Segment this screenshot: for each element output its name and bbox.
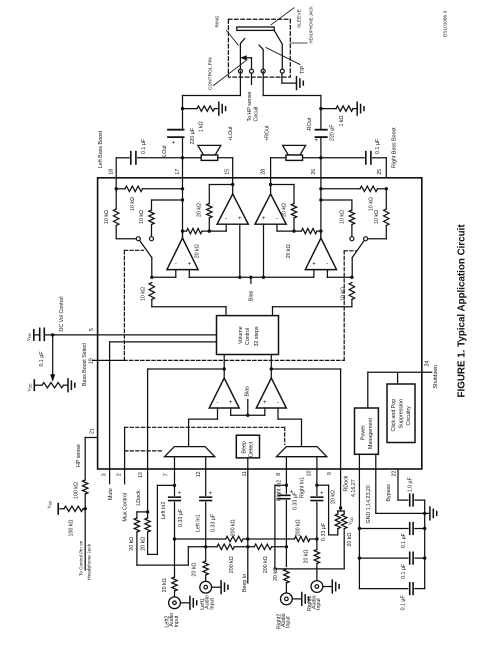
svg-text:Mux Control: Mux Control: [122, 493, 128, 522]
svg-text:20 kΩ: 20 kΩ: [347, 533, 353, 547]
svg-text:20 kΩ: 20 kΩ: [331, 490, 337, 504]
svg-text:19: 19: [89, 358, 95, 364]
capacitor 220 uF right: [314, 130, 326, 144]
capacitor 0.1 uF decoupling 3: [359, 583, 424, 595]
op-amp A4 -ROut driver: [305, 231, 336, 277]
svg-text:Right Bass Boost: Right Bass Boost: [392, 127, 398, 168]
label Left Bass Boost: [98, 130, 104, 168]
label HP sense: [76, 444, 82, 467]
label RDock: [344, 475, 350, 491]
svg-text:Control: Control: [245, 328, 251, 345]
svg-text:10 kΩ: 10 kΩ: [374, 210, 380, 224]
resistor 20 kOhm RDock B: [275, 485, 347, 569]
label +ROut: [265, 125, 271, 141]
wire pin 18 line: [115, 158, 117, 189]
svg-text:Bass Boost Select: Bass Boost Select: [82, 342, 88, 386]
node pin17 10k tap: [181, 198, 184, 201]
svg-text:10 kΩ: 10 kΩ: [130, 197, 136, 211]
svg-text:CONTROL PIN: CONTROL PIN: [208, 57, 214, 90]
capacitor 0.1 uF decoupling 1: [359, 523, 424, 535]
svg-text:LDock: LDock: [136, 490, 142, 505]
ground symbol main: [430, 507, 437, 520]
resistor 10 kOhm bass boost left horizontal: [116, 186, 182, 191]
label HEADPHONE JACK with leader: [291, 6, 313, 44]
jack tip contact: [259, 45, 265, 73]
svg-text:+: +: [314, 138, 318, 144]
wire bias rail lower: [231, 400, 265, 417]
svg-text:RING: RING: [215, 15, 221, 27]
node pin18 feedback row: [115, 187, 185, 190]
label Right In2: [276, 480, 282, 501]
label 10 kOhm left B: [139, 210, 145, 224]
pin 19 label: [89, 358, 95, 364]
svg-text:0.33 µF: 0.33 µF: [210, 513, 216, 532]
dashed mux control line left: [125, 450, 162, 452]
wire GND pins line: [376, 454, 425, 513]
speaker right: [283, 145, 306, 160]
svg-text:1.0 µF: 1.0 µF: [408, 476, 414, 492]
pin 21 label: [89, 428, 95, 434]
node Bias tap upper: [249, 276, 252, 284]
wire VDD rail pins 4 16 27: [358, 454, 361, 588]
svg-text:To HP sense: To HP sense: [247, 92, 253, 122]
resistor 10 kOhm left volume: [149, 283, 226, 316]
label RING with leader: [215, 15, 239, 45]
wire tip to -ROut: [263, 71, 321, 95]
label 20 kOhm LDock B: [140, 537, 146, 551]
resistor 20 kOhm Right In2: [284, 569, 289, 593]
svg-text:Bypass: Bypass: [386, 484, 392, 502]
svg-text:0.33 µF: 0.33 µF: [178, 508, 184, 527]
resistor 200 kOhm beep left A: [226, 536, 243, 541]
svg-text:+: +: [320, 491, 324, 497]
pin 7 label: [164, 473, 170, 476]
label Bass Boost Select: [82, 342, 88, 386]
wire Mux Control pin 2 riser: [124, 427, 126, 484]
wire row A beep to inputs 1: [173, 537, 319, 540]
svg-text:Detect: Detect: [249, 441, 255, 457]
label 0.33 uF Left In2: [178, 508, 184, 527]
wire A3 + input to bias rail: [263, 224, 265, 277]
jack Right1 audio input: [311, 581, 331, 593]
svg-text:Shutdown: Shutdown: [433, 365, 439, 389]
pin 9 label: [327, 472, 333, 475]
svg-text:Management: Management: [368, 418, 374, 449]
label 10 kOhm left A: [104, 210, 110, 224]
label Shutdown: [433, 365, 439, 389]
label 20 kOhm RDock A: [331, 490, 337, 504]
wire ring to -LOut: [183, 71, 241, 95]
capacitor 0.33 uF Right In1: [311, 491, 324, 501]
label 20 kOhm Right In1: [304, 549, 310, 563]
svg-text:Circuit: Circuit: [253, 106, 259, 122]
wire pin 8 Right In2 line: [285, 469, 288, 567]
label Right In1: [300, 477, 306, 498]
op-amp A2 +LOut driver: [217, 178, 248, 224]
label 0.33 uF Right In1: [321, 522, 327, 541]
svg-text:11: 11: [242, 471, 248, 476]
svg-text:+: +: [238, 215, 242, 222]
capacitor 0.33 uF Right In2: [278, 489, 293, 498]
svg-text:Input: Input: [174, 615, 180, 627]
power management block: [355, 408, 379, 454]
pin 11 label: [242, 471, 248, 476]
op-amp A6 right gain stage: [256, 378, 286, 408]
svg-text:VDD: VDD: [348, 516, 354, 525]
label -LOut: [162, 145, 168, 159]
potentiometer DC volume: [34, 383, 67, 388]
svg-text:+: +: [172, 140, 176, 146]
wire pin 10 Right In1 line: [315, 469, 318, 550]
label pins 4 16 27: [351, 479, 357, 497]
svg-text:Power: Power: [360, 425, 366, 440]
wire RDock bus: [270, 367, 341, 508]
capacitor 0.1 uF DC vol: [34, 328, 45, 340]
label 1.0 uF bypass: [408, 476, 414, 492]
label 0.33 uF Left In1: [210, 513, 216, 532]
svg-text:Right In1: Right In1: [300, 477, 306, 498]
wire volume to bus left: [223, 355, 225, 379]
svg-text:-: -: [326, 261, 328, 268]
node +ROut feedback: [269, 183, 272, 186]
supply VDD for DC vol cap: [33, 330, 35, 340]
svg-text:-: -: [277, 399, 279, 406]
wire beep detect to pin 11: [247, 458, 249, 469]
label 220 uF left: [190, 127, 196, 144]
svg-text:20 kΩ: 20 kΩ: [281, 203, 287, 217]
resistor 20 kOhm right feedback vertical: [271, 185, 297, 232]
pin 17 label: [175, 169, 181, 175]
wire A5 minus to left mux: [189, 408, 218, 447]
resistor 100 kOhm HP sense pullup: [60, 506, 85, 511]
speaker left: [198, 145, 221, 160]
resistor 200 kOhm beep left B: [217, 544, 234, 549]
volume control block: [217, 316, 279, 355]
potentiometer wiper arrow: [51, 335, 55, 381]
svg-text:12: 12: [196, 471, 202, 477]
wire volume to bus right: [270, 355, 272, 379]
label 1 kOhm right: [339, 115, 345, 126]
label 0.1 uF left: [141, 138, 147, 154]
wire -ROut line pin 26: [320, 96, 322, 239]
svg-text:-ROut: -ROut: [307, 117, 313, 132]
svg-text:DS101086-3: DS101086-3: [442, 10, 447, 37]
svg-text:Volume: Volume: [238, 326, 244, 344]
svg-text:9: 9: [327, 472, 333, 475]
resistor 10 kOhm left B (direct leg): [149, 200, 183, 237]
svg-text:10: 10: [307, 470, 313, 476]
label TIP with leader: [266, 48, 306, 75]
svg-text:20 kΩ: 20 kΩ: [286, 244, 292, 258]
label 10 kOhm right horizontal: [368, 197, 374, 211]
svg-text:0.1 µF: 0.1 µF: [375, 138, 381, 154]
svg-text:+LOut: +LOut: [228, 126, 234, 141]
svg-text:To Control Pin on: To Control Pin on: [79, 540, 84, 576]
mux MUX1 left input select: [165, 447, 215, 457]
svg-text:0.1 µF: 0.1 µF: [400, 595, 406, 611]
jack ring contact: [238, 39, 244, 74]
svg-text:Right In2: Right In2: [276, 480, 282, 501]
resistor 20 kOhm Right In1: [314, 550, 319, 581]
node ground bus: [423, 512, 429, 515]
node pin26 10k tap: [319, 198, 322, 201]
svg-text:HEADPHONE JACK: HEADPHONE JACK: [308, 6, 313, 44]
resistor 10 kOhm right A (pin25 leg): [368, 189, 390, 239]
wire pin 12 Left In1 line: [205, 469, 207, 561]
label Right Bass Boost: [392, 127, 398, 168]
supply VDD for HP sense: [57, 504, 59, 514]
node HP sense divider: [84, 507, 87, 510]
capacitor 0.1 uF left bass boost: [131, 152, 136, 164]
svg-text:100 kΩ: 100 kΩ: [69, 520, 75, 537]
svg-text:0.33 µF: 0.33 µF: [321, 522, 327, 541]
label 20 kOhm right fb: [281, 203, 287, 217]
node -LOut 1k tap: [181, 107, 184, 110]
resistor 10 kOhm right volume: [273, 283, 355, 316]
label VDD 1: [26, 332, 32, 341]
pin 5 label: [89, 328, 95, 331]
jack control-pin contact with arrow: [241, 56, 253, 73]
svg-text:200 kΩ: 200 kΩ: [263, 556, 269, 573]
wire left output row: [116, 158, 233, 178]
ground at Left2 jack: [190, 596, 197, 609]
svg-text:10 kΩ: 10 kΩ: [368, 197, 374, 211]
resistor 10 kOhm right B (direct leg): [321, 200, 355, 237]
wire right output row: [271, 158, 387, 178]
svg-text:18: 18: [109, 169, 115, 175]
svg-text:+: +: [229, 399, 233, 406]
resistor 10 kOhm bass boost right horizontal: [321, 186, 386, 191]
svg-text:200 kΩ: 200 kΩ: [229, 556, 235, 573]
node right output row: [319, 156, 322, 159]
svg-text:+: +: [209, 491, 213, 497]
ground at Right1 jack: [332, 580, 339, 593]
svg-text:200 kΩ: 200 kΩ: [230, 519, 236, 536]
resistor 100 kOhm HP sense series: [83, 480, 88, 570]
dashed mux control line right: [125, 427, 285, 444]
node LDock: [137, 510, 149, 513]
jack Right2 audio input: [281, 593, 301, 605]
label 220 uF right: [329, 124, 335, 141]
beep detect block: [236, 435, 259, 458]
node RDock: [338, 506, 344, 511]
op-amp A3 +ROut driver: [255, 178, 286, 224]
label Right1 Audio Input: [307, 595, 322, 611]
switch SW2 right bass boost: [350, 237, 368, 278]
wire mux legs to pins 8 10: [286, 457, 317, 469]
label Left2 Audio Input: [164, 613, 179, 628]
resistor 20 kOhm Left In2: [172, 577, 177, 597]
label Right2 Audio Input: [276, 613, 291, 629]
label Bias lower: [245, 386, 251, 397]
label 200 kOhm A1: [230, 519, 236, 536]
svg-text:20 kΩ: 20 kΩ: [192, 562, 198, 576]
resistor 1 kOhm right: [321, 106, 356, 111]
ground at left 1k: [219, 102, 226, 115]
label SLEEVE with leader: [271, 8, 302, 28]
svg-text:20 kΩ: 20 kΩ: [304, 549, 310, 563]
resistor 20 kOhm LDock A: [134, 512, 188, 565]
ground at jack sleeve: [297, 77, 304, 90]
svg-text:Left Bass Boost: Left Bass Boost: [98, 130, 104, 168]
svg-text:SLEEVE: SLEEVE: [296, 8, 302, 28]
label Mute: [108, 488, 114, 500]
svg-text:VDD: VDD: [26, 332, 32, 341]
jack sleeve bar: [237, 27, 274, 30]
capacitor 0.1 uF right bass boost: [366, 152, 371, 164]
svg-text:10 kΩ: 10 kΩ: [139, 210, 145, 224]
svg-text:+: +: [262, 215, 266, 222]
node -ROut 1k tap: [319, 107, 322, 110]
wire pin 7 Left In2 line: [173, 469, 176, 577]
wire LDock bus: [148, 367, 226, 512]
capacitor 0.33 uF Left In1: [200, 491, 213, 501]
resistor 20 kOhm RDock A: [317, 485, 341, 535]
wire Bass Boost Select pin 19: [93, 359, 124, 361]
resistor 200 kOhm beep right B: [254, 544, 271, 549]
label 200 kOhm B2: [263, 556, 269, 573]
op-amp A5 left gain stage: [209, 378, 239, 408]
svg-text:0.1 µF: 0.1 µF: [141, 138, 147, 154]
label 0.1 uF right: [375, 138, 381, 154]
pin 12 label: [196, 471, 202, 477]
wire Mute pin 3 riser: [110, 342, 217, 484]
op-amp A1 -LOut driver: [167, 231, 198, 277]
svg-text:+: +: [178, 491, 182, 497]
svg-text:200 kΩ: 200 kΩ: [295, 519, 301, 536]
svg-text:7: 7: [164, 473, 170, 476]
label VDD rail: [348, 516, 354, 525]
pin 26 label: [311, 169, 317, 175]
wire sleeve to ground: [282, 73, 297, 83]
label Left1 Audio Input: [200, 595, 215, 610]
wire ground rail right: [423, 513, 426, 588]
label Beep In: [242, 574, 248, 592]
label 10 kOhm right A: [374, 210, 380, 224]
svg-text:1 kΩ: 1 kΩ: [198, 121, 204, 132]
IC boundary box: [98, 178, 422, 469]
wire bypass pin 22: [398, 469, 425, 513]
svg-text:10 kΩ: 10 kΩ: [340, 287, 346, 301]
pin 22 label: [392, 471, 398, 477]
svg-text:3: 3: [101, 473, 107, 476]
svg-text:28: 28: [260, 169, 266, 175]
label 20 kOhm Left In2: [162, 578, 168, 592]
wire -LOut line pin 17: [182, 96, 184, 239]
label 20 kOhm left fb: [197, 203, 203, 217]
svg-text:24: 24: [425, 361, 431, 367]
wire HP sense pin 21: [85, 438, 97, 481]
resistor 20 kOhm right input horizontal: [277, 224, 323, 234]
pin 15 label: [225, 169, 231, 175]
capacitor 1.0 uF bypass: [410, 494, 413, 506]
label 1 kOhm left: [198, 121, 204, 132]
pin 28 label: [260, 169, 266, 175]
mux MUX2 right input select: [277, 447, 327, 457]
svg-text:HP sense: HP sense: [76, 444, 82, 467]
svg-text:Mute: Mute: [108, 488, 114, 500]
label 10 kOhm right B: [340, 210, 346, 224]
svg-text:-LOut: -LOut: [162, 145, 168, 159]
ground at Right2 jack: [302, 593, 309, 606]
switch SW1 left bass boost: [136, 237, 153, 278]
wire mux legs to pins 7 12: [175, 457, 206, 469]
svg-text:21: 21: [89, 428, 95, 434]
svg-text:2: 2: [116, 473, 122, 476]
label 10 kOhm left horizontal: [130, 197, 136, 211]
svg-text:20 kΩ: 20 kΩ: [194, 244, 200, 258]
label Left In1: [195, 514, 201, 532]
svg-text:TIP: TIP: [300, 65, 306, 74]
svg-text:Beep: Beep: [242, 441, 248, 453]
label LDock: [136, 490, 142, 505]
label 0.33 uF Right In2: [292, 491, 298, 510]
svg-text:0.1 µF: 0.1 µF: [401, 563, 407, 579]
label VDD 2: [26, 383, 32, 392]
svg-text:4,16,27: 4,16,27: [351, 479, 357, 497]
svg-text:20 kΩ: 20 kΩ: [162, 578, 168, 592]
svg-text:+: +: [312, 261, 316, 268]
svg-text:+: +: [263, 399, 267, 406]
svg-text:1 kΩ: 1 kΩ: [339, 115, 345, 126]
svg-text:+ROut: +ROut: [265, 125, 271, 141]
svg-text:-: -: [225, 215, 227, 222]
svg-text:Left In1: Left In1: [195, 514, 201, 532]
jack Left1 audio input: [200, 581, 220, 593]
resistor 20 kOhm left feedback vertical: [207, 185, 233, 232]
svg-text:0.33 µF: 0.33 µF: [292, 491, 298, 510]
svg-text:DC Vol Control: DC Vol Control: [59, 296, 65, 331]
pin 3 label: [101, 473, 107, 476]
label 20 kOhm right input: [286, 244, 292, 258]
svg-text:+: +: [187, 261, 191, 268]
svg-text:10 kΩ: 10 kΩ: [141, 287, 147, 301]
label Left In2: [161, 502, 167, 520]
svg-text:GND 1,14,23,20: GND 1,14,23,20: [366, 485, 372, 523]
svg-text:Click and Pop: Click and Pop: [391, 399, 397, 432]
document number DS101086-3: [442, 10, 447, 37]
svg-text:5: 5: [89, 328, 95, 331]
resistor 20 kOhm left input horizontal: [181, 224, 226, 234]
svg-text:10 kΩ: 10 kΩ: [340, 210, 346, 224]
label 20 kOhm LDock A: [129, 537, 135, 551]
label 20 kOhm Left In1: [192, 562, 198, 576]
label -ROut: [307, 117, 313, 132]
dashed bass boost select control line: [124, 250, 357, 360]
pin 8 label: [276, 473, 282, 476]
label 0.1 uF decoupling 1: [401, 532, 407, 548]
svg-text:0.1 µF: 0.1 µF: [39, 351, 45, 367]
svg-text:20 kΩ: 20 kΩ: [129, 537, 135, 551]
svg-text:VDD: VDD: [47, 500, 53, 509]
capacitor 0.33 uF Left In2: [169, 491, 182, 501]
svg-text:10 kΩ: 10 kΩ: [104, 210, 110, 224]
svg-text:22: 22: [392, 471, 398, 477]
label VDD 3: [47, 500, 53, 509]
svg-text:26: 26: [311, 169, 317, 175]
label Mux Control: [122, 493, 128, 522]
label 0.1 uF DC vol: [39, 351, 45, 367]
label 200 kOhm A2: [295, 519, 301, 536]
supply VDD for pot: [33, 380, 35, 390]
capacitor 220 uF left: [168, 130, 184, 147]
svg-text:20 kΩ: 20 kΩ: [140, 537, 146, 551]
svg-text:Circuitry: Circuitry: [406, 406, 412, 426]
label To Control Pin on Headphone Jack: [79, 540, 93, 580]
svg-text:13: 13: [138, 472, 144, 478]
jack Left2 audio input: [169, 597, 189, 609]
capacitor 0.1 uF decoupling 2: [359, 552, 424, 564]
